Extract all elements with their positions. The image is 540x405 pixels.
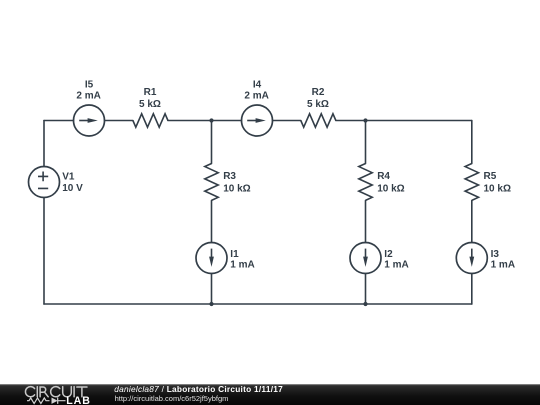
svg-text:R4: R4 [377,171,390,182]
resistor R3 [205,164,251,201]
svg-text:10 V: 10 V [62,183,83,194]
voltage source V1 [29,167,84,198]
svg-text:I1: I1 [230,249,239,260]
svg-text:R2: R2 [312,87,325,98]
wire [105,120,133,122]
svg-text:R1: R1 [144,87,157,98]
wire [365,274,367,305]
svg-text:http://circuitlab.com/c6r52jf5: http://circuitlab.com/c6r52jf5ybfgm [115,394,229,403]
svg-text:danielcla87 / Laboratorio Circ: danielcla87 / Laboratorio Circuito 1/11/… [114,384,283,394]
wire [168,120,212,122]
wire [471,201,473,243]
resistor R1 [133,87,168,127]
wire [211,121,213,164]
svg-text:I2: I2 [384,249,393,260]
logo resistor zigzag [27,398,50,404]
wire [44,303,472,305]
svg-text:R5: R5 [484,171,497,182]
resistor R2 [301,87,336,127]
current source I1 [196,243,255,274]
junction [209,302,213,306]
wire [43,121,45,167]
svg-text:1 mA: 1 mA [491,260,515,271]
svg-text:2 mA: 2 mA [76,91,100,102]
node B [363,118,367,122]
wire [273,120,301,122]
svg-text:LAB: LAB [66,395,90,405]
current source I5 [74,80,105,136]
node A [209,118,213,122]
svg-text:1 mA: 1 mA [230,260,254,271]
wire [365,121,367,164]
wire [366,120,472,122]
logo wordmark LAB [66,395,90,405]
wire [211,201,213,243]
current source I4 [242,80,273,136]
footer title text [114,384,283,394]
resistor R5 [465,164,511,201]
svg-text:1 mA: 1 mA [384,260,408,271]
resistor R4 [359,164,405,201]
current source I3 [456,243,515,274]
footer url text [115,394,229,403]
junction [363,302,367,306]
svg-text:5 kΩ: 5 kΩ [139,99,161,110]
CircuitLab logo wordmark CIRCUIT [25,387,87,397]
svg-text:10 kΩ: 10 kΩ [484,184,511,195]
svg-text:10 kΩ: 10 kΩ [377,184,404,195]
svg-text:2 mA: 2 mA [244,91,268,102]
logo diode [52,398,66,404]
wire [471,274,473,305]
svg-text:I3: I3 [491,249,500,260]
current source I2 [350,243,409,274]
svg-text:V1: V1 [62,172,75,183]
wire [212,120,242,122]
svg-text:R3: R3 [223,171,236,182]
wire [471,121,473,164]
svg-text:10 kΩ: 10 kΩ [223,184,250,195]
wire [365,201,367,243]
wire [43,198,45,305]
svg-text:I4: I4 [253,80,262,91]
svg-text:5 kΩ: 5 kΩ [307,99,329,110]
wire [44,120,74,122]
footer bar [0,384,540,405]
wire [336,120,366,122]
svg-text:I5: I5 [85,80,94,91]
wire [211,274,213,305]
